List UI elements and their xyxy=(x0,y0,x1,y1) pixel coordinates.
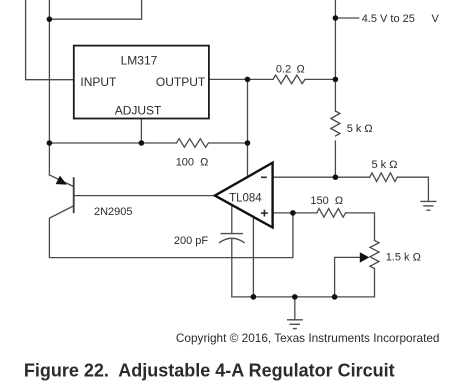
resistor R 100 ohm zigzag xyxy=(176,139,208,148)
wire 150 ohm to pot top xyxy=(346,213,375,241)
node dot rail wiper xyxy=(332,294,338,300)
op-amp minus input sign xyxy=(261,176,267,178)
resistor R 150 ohm zigzag xyxy=(317,209,346,218)
svg-text:5 k Ω: 5 k Ω xyxy=(347,123,373,135)
wire emitter column xyxy=(48,0,50,175)
wire non-inverting row left xyxy=(273,212,317,214)
wire mid ground stem xyxy=(294,297,296,320)
svg-text:200 pF: 200 pF xyxy=(174,235,209,247)
wire ADJUST stem xyxy=(140,119,142,144)
capacitor C 200pF bottom lead xyxy=(231,240,233,297)
svg-text:LM317: LM317 xyxy=(121,54,158,68)
svg-text:ADJUST: ADJUST xyxy=(115,104,162,118)
wire inverting row xyxy=(273,176,370,178)
wire 100 ohm row left xyxy=(49,142,176,144)
node dot supply 4.5V xyxy=(333,15,339,21)
wire op-amp output to base xyxy=(74,195,215,197)
ground symbol right xyxy=(420,201,436,210)
svg-text:TL084: TL084 xyxy=(229,193,262,205)
wire supply label tick xyxy=(335,17,358,19)
wire OUTPUT row left lead xyxy=(209,78,273,80)
wire 100 ohm row right xyxy=(209,142,248,144)
svg-text:Copyright © 2016, Texas Instru: Copyright © 2016, Texas Instruments Inco… xyxy=(176,331,440,345)
svg-text:5 k Ω: 5 k Ω xyxy=(372,159,398,171)
svg-text:150 Ω: 150 Ω xyxy=(310,195,343,207)
wire supply column lower xyxy=(334,141,336,177)
svg-text:Figure 22. Adjustable 4-A Reg: Figure 22. Adjustable 4-A Regulator Circ… xyxy=(24,360,395,380)
svg-text:0.2 Ω: 0.2 Ω xyxy=(276,63,305,75)
potentiometer R 1.5k zigzag xyxy=(370,240,379,268)
node dot adj row left xyxy=(47,140,53,146)
node dot top jumper xyxy=(47,16,53,22)
potentiometer wiper arrow xyxy=(360,252,370,262)
node dot rail V- xyxy=(251,294,257,300)
op-amp U TL084 triangle xyxy=(215,163,273,228)
wire pot bottom lead xyxy=(374,269,376,297)
resistor R 5k vertical zigzag xyxy=(331,111,340,136)
node dot non-inverting xyxy=(290,210,296,216)
svg-text:OUTPUT: OUTPUT xyxy=(156,75,206,89)
wire inverting feed column xyxy=(247,79,249,176)
wire input feed left column xyxy=(26,0,74,80)
svg-text:INPUT: INPUT xyxy=(80,75,117,89)
capacitor C 200pF plates xyxy=(219,234,245,243)
svg-text:V: V xyxy=(432,13,440,25)
capacitor C 200pF top lead xyxy=(231,205,233,233)
wire ground rail xyxy=(232,296,375,298)
op-amp plus input sign xyxy=(261,210,268,217)
node dot output-sense left xyxy=(245,77,251,83)
wire top jumper xyxy=(49,0,141,19)
svg-text:4.5 V to 25: 4.5 V to 25 xyxy=(362,13,415,25)
transistor emitter arrowhead xyxy=(56,176,67,185)
node dot rail ground xyxy=(292,294,298,300)
wire OUTPUT row right lead xyxy=(305,78,335,80)
node dot inverting row xyxy=(333,174,339,180)
wire op-amp V- stem xyxy=(252,217,254,297)
svg-text:2N2905: 2N2905 xyxy=(94,206,133,218)
wire inverting row to ground xyxy=(397,177,428,201)
wire emitter diagonal xyxy=(49,175,73,187)
node dot adj pin xyxy=(139,140,145,146)
transistor Q 2N2905 base bar xyxy=(73,177,75,213)
wire supply column upper xyxy=(334,0,336,111)
resistor R 5k horizontal zigzag xyxy=(370,173,398,182)
wire wiper line xyxy=(335,257,360,297)
wire feedback line collector to plus input xyxy=(49,206,293,258)
resistor R 0.2 ohm zigzag xyxy=(273,75,305,84)
node dot output-sense right xyxy=(333,77,339,83)
svg-text:100 Ω: 100 Ω xyxy=(176,156,209,168)
regulator U LM317 box xyxy=(74,46,209,119)
node dot adj row right xyxy=(245,140,251,146)
svg-text:1.5 k Ω: 1.5 k Ω xyxy=(386,252,421,264)
ground symbol middle xyxy=(287,320,303,329)
